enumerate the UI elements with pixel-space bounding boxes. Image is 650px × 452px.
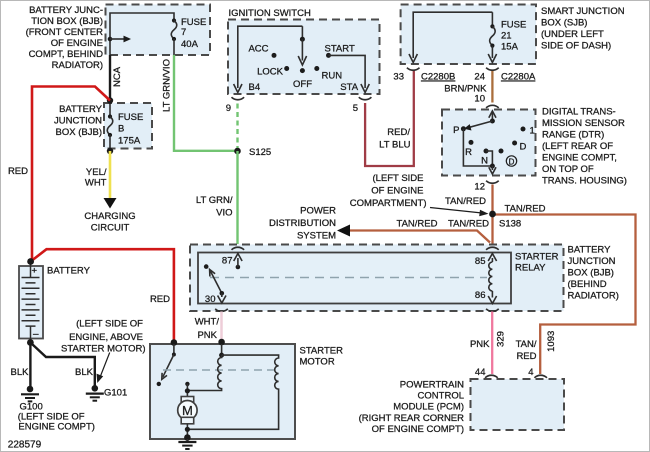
- wire START to STA pin: [329, 55, 370, 92]
- connector pin 24 C2280A: [474, 68, 536, 83]
- svg-text:BOX (BJB): BOX (BJB): [568, 268, 614, 279]
- svg-text:C2280B: C2280B: [421, 72, 455, 83]
- label power distribution system: [269, 206, 336, 242]
- svg-text:BOX (SJB): BOX (SJB): [541, 18, 587, 29]
- node S125: [234, 147, 271, 158]
- svg-text:B4: B4: [249, 82, 261, 93]
- svg-text:B: B: [118, 124, 124, 135]
- svg-text:(RIGHT REAR CORNER: (RIGHT REAR CORNER: [359, 413, 465, 424]
- svg-text:4: 4: [528, 367, 533, 378]
- node junction dot top of fuse B: [107, 97, 113, 103]
- svg-text:START: START: [325, 44, 355, 55]
- svg-text:21: 21: [501, 31, 512, 42]
- svg-text:STARTER: STARTER: [300, 346, 344, 357]
- svg-text:COMPARTMENT): COMPARTMENT): [350, 198, 427, 209]
- connector pin 5: [353, 97, 372, 114]
- svg-text:IGNITION SWITCH: IGNITION SWITCH: [229, 8, 311, 19]
- connector relay pin 86: [486, 309, 499, 312]
- DTR common pin arrow up: [489, 111, 496, 124]
- svg-text:D: D: [520, 142, 527, 153]
- wire LT GRN/VIO from fuse 7 to S125: [174, 55, 235, 151]
- svg-text:RUN: RUN: [322, 71, 343, 82]
- svg-text:G101: G101: [104, 388, 127, 399]
- svg-text:LT BLU: LT BLU: [379, 140, 410, 151]
- svg-text:STARTER: STARTER: [515, 252, 559, 263]
- svg-text:VIO: VIO: [216, 208, 232, 219]
- connector pin 9: [226, 97, 244, 114]
- wire RED from BJB to battery: [32, 87, 110, 262]
- svg-text:85: 85: [475, 256, 486, 267]
- svg-text:COMPT, BEHIND: COMPT, BEHIND: [29, 49, 104, 60]
- solenoid windings: [187, 344, 278, 429]
- svg-text:M: M: [182, 403, 193, 418]
- wire BLK battery to G101: [30, 343, 94, 389]
- solenoid fixed contact right: [185, 382, 189, 386]
- connector PCM pin 4: [528, 367, 547, 378]
- svg-text:OF ENGINE: OF ENGINE: [51, 38, 103, 49]
- svg-text:(UNDER LEFT: (UNDER LEFT: [541, 29, 604, 40]
- svg-text:86: 86: [475, 290, 486, 301]
- connector relay pin 87: [232, 247, 245, 250]
- starter motor box: [150, 344, 295, 439]
- svg-text:(BEHIND: (BEHIND: [568, 279, 607, 290]
- connector relay pin 85: [486, 247, 499, 250]
- contact ACC: [272, 53, 277, 58]
- svg-text:SYSTEM: SYSTEM: [297, 231, 336, 242]
- powertrain control module PCM dashed box: [471, 379, 565, 430]
- starter relay inner box: [198, 253, 511, 304]
- svg-text:RADIATOR): RADIATOR): [52, 60, 103, 71]
- svg-text:CIRCUIT: CIRCUIT: [91, 223, 130, 234]
- contact D: [512, 141, 517, 146]
- label starter relay: [515, 252, 559, 274]
- svg-text:OF ENGINE COMPT): OF ENGINE COMPT): [372, 424, 464, 435]
- svg-text:5: 5: [353, 103, 358, 114]
- svg-text:TAN/RED: TAN/RED: [397, 219, 438, 230]
- contact P: [461, 126, 466, 131]
- svg-text:RED: RED: [8, 166, 28, 177]
- wire RED battery to starter motor: [31, 249, 174, 341]
- battery: [19, 262, 43, 343]
- svg-text:RADIATOR): RADIATOR): [568, 291, 619, 302]
- svg-text:1093: 1093: [546, 331, 557, 352]
- label left side of engine above starter motor: [61, 319, 145, 355]
- pointer arrow to G101: [97, 353, 110, 384]
- labels G100: [18, 402, 95, 433]
- node junction dot below fuse B: [107, 148, 113, 154]
- svg-text:(LEFT REAR OF: (LEFT REAR OF: [542, 141, 613, 152]
- contact R: [469, 140, 474, 145]
- contact OFF: [300, 68, 305, 73]
- svg-text:STARTER MOTOR): STARTER MOTOR): [61, 344, 145, 355]
- ground starter motor: [178, 439, 196, 449]
- svg-text:MODULE (PCM): MODULE (PCM): [393, 402, 464, 413]
- svg-text:MISSION SENSOR: MISSION SENSOR: [542, 118, 625, 129]
- svg-text:9: 9: [226, 103, 231, 114]
- svg-text:BATTERY JUNC-: BATTERY JUNC-: [29, 5, 103, 16]
- svg-text:P: P: [453, 125, 459, 136]
- label left side of engine compartment: [350, 173, 427, 209]
- svg-text:JUNCTION: JUNCTION: [568, 256, 616, 267]
- connector pin 10 arc: [486, 105, 499, 108]
- DTR label text: [542, 107, 627, 187]
- wire TAN/RED from power distribution arrow: [337, 225, 490, 243]
- svg-text:N: N: [481, 156, 488, 167]
- svg-text:RED: RED: [150, 294, 170, 305]
- svg-text:RED: RED: [516, 351, 536, 362]
- svg-text:YEL/: YEL/: [86, 167, 107, 178]
- svg-text:ENGINE, ABOVE: ENGINE, ABOVE: [69, 332, 143, 343]
- contact START: [326, 53, 331, 58]
- svg-text:+: +: [32, 266, 38, 277]
- ground G101: [86, 385, 104, 401]
- svg-text:CONTROL: CONTROL: [418, 390, 464, 401]
- svg-text:BLK: BLK: [11, 367, 30, 378]
- fuse F21 15A: [488, 12, 526, 62]
- svg-text:FUSE: FUSE: [501, 20, 526, 31]
- svg-text:TAN/RED: TAN/RED: [448, 219, 489, 230]
- DTR position labels: [453, 125, 535, 167]
- BJB behind radiator label: [568, 245, 619, 302]
- wire LT GRN/VIO dashed to S125: [236, 104, 238, 149]
- svg-text:POWER: POWER: [300, 206, 336, 217]
- svg-text:BLK: BLK: [75, 367, 94, 378]
- wire RED/LT BLU from STA to SJB pin 33: [365, 71, 414, 167]
- svg-text:RANGE (DTR): RANGE (DTR): [542, 130, 604, 141]
- svg-text:40A: 40A: [181, 39, 199, 50]
- node battery positive: [27, 258, 34, 265]
- relay pin 30 arrow: [205, 291, 226, 305]
- svg-text:TAN/: TAN/: [516, 339, 537, 350]
- wire N to output: [486, 151, 492, 166]
- svg-text:ENGINE COMPT): ENGINE COMPT): [18, 422, 95, 433]
- svg-text:WHT/: WHT/: [195, 317, 220, 328]
- svg-text:175A: 175A: [118, 136, 141, 147]
- contact 1: [521, 127, 526, 132]
- svg-text:12: 12: [474, 182, 485, 193]
- svg-text:TAN/RED: TAN/RED: [445, 196, 486, 207]
- node S138: [489, 211, 521, 230]
- svg-text:R: R: [465, 147, 472, 158]
- svg-text:24: 24: [474, 72, 485, 83]
- wire TAN/RED DTR pin12 to S138: [491, 185, 493, 215]
- svg-text:(FRONT CENTER: (FRONT CENTER: [26, 27, 104, 38]
- BJB behind radiator outer dashed box: [190, 245, 564, 312]
- BJB fuse B label text: [54, 104, 103, 138]
- relay pin 87 arrow: [222, 254, 242, 270]
- svg-text:STA: STA: [340, 82, 358, 93]
- svg-text:POWERTRAIN: POWERTRAIN: [400, 379, 464, 390]
- svg-text:LOCK: LOCK: [257, 67, 284, 78]
- svg-text:DIGITAL TRANS-: DIGITAL TRANS-: [542, 107, 616, 118]
- DTR selector arm pointing at P: [464, 121, 493, 131]
- contact RUN: [314, 66, 319, 71]
- svg-text:SIDE OF DASH): SIDE OF DASH): [541, 41, 611, 52]
- node wht/pnk wire at starter: [218, 339, 225, 346]
- wire TAN/RED 1093 S138 to PCM pin 4: [493, 215, 636, 375]
- svg-text:BATTERY: BATTERY: [47, 266, 91, 277]
- solenoid fixed contact left: [157, 382, 161, 386]
- wire BLK battery to G100: [29, 343, 31, 390]
- wire TAN/RED S138 down to relay pin 85: [491, 214, 493, 245]
- svg-text:C2280A: C2280A: [501, 72, 536, 83]
- contact LOCK: [284, 66, 289, 71]
- wire ignition feed B4: [234, 26, 303, 92]
- relay switch blade: [204, 264, 222, 293]
- fuse F7 40A: [171, 17, 206, 55]
- wire SJB internal to pin 33: [409, 12, 492, 62]
- svg-text:87: 87: [222, 256, 233, 267]
- svg-text:S125: S125: [249, 147, 271, 158]
- ignition switch dashed box: [228, 20, 380, 95]
- SJB label text: [541, 6, 625, 52]
- digital transmission sensor range DTR dashed box: [442, 110, 536, 176]
- connector relay pin 30: [215, 309, 228, 312]
- BJB label text: [26, 5, 104, 71]
- svg-text:PNK: PNK: [470, 339, 490, 350]
- svg-text:TRANS. HOUSING): TRANS. HOUSING): [542, 176, 627, 187]
- ignition position labels: [248, 44, 358, 94]
- svg-text:–: –: [33, 329, 39, 340]
- svg-text:S138: S138: [499, 219, 521, 230]
- svg-text:JUNCTION: JUNCTION: [54, 116, 102, 127]
- svg-text:FUSE: FUSE: [118, 112, 143, 123]
- svg-text:LT GRN/: LT GRN/: [196, 195, 233, 206]
- pointer arrow to S138: [430, 208, 489, 217]
- DTR output node arrow down: [489, 164, 496, 175]
- svg-text:(LEFT SIDE OF: (LEFT SIDE OF: [76, 319, 143, 330]
- svg-text:TAN/RED: TAN/RED: [505, 204, 546, 215]
- wire motor to ground: [184, 424, 191, 441]
- node battery negative: [27, 339, 34, 346]
- contact N: [484, 149, 489, 154]
- svg-text:OF ENGINE: OF ENGINE: [371, 186, 423, 197]
- svg-text:MOTOR: MOTOR: [300, 357, 335, 368]
- relay coil pins 85 86: [475, 254, 497, 304]
- svg-text:RELAY: RELAY: [515, 263, 546, 274]
- svg-text:CHARGING: CHARGING: [84, 211, 135, 222]
- connector pin 12: [474, 181, 498, 193]
- wire YEL/WHT: [109, 151, 112, 199]
- svg-text:33: 33: [393, 72, 404, 83]
- battery junction box BJB (fuse B) dashed box: [104, 103, 152, 149]
- ground G100: [21, 386, 39, 402]
- connector pin 33 C2280B: [393, 68, 455, 83]
- wire BRN/PNK SJB to DTR: [491, 71, 493, 103]
- connector PCM pin 44: [475, 367, 498, 378]
- svg-text:TION BOX (BJB): TION BOX (BJB): [31, 16, 103, 27]
- mechanical link dashed line: [163, 369, 277, 371]
- svg-text:OFF: OFF: [293, 79, 312, 90]
- svg-text:ACC: ACC: [248, 44, 268, 55]
- motor M: [178, 397, 197, 424]
- svg-text:(LEFT SIDE: (LEFT SIDE: [372, 173, 423, 184]
- relay armature dashed link line: [210, 277, 487, 279]
- wire NCA black: [109, 55, 111, 101]
- svg-text:DISTRIBUTION: DISTRIBUTION: [269, 218, 336, 229]
- label starter motor: [300, 346, 344, 368]
- battery junction box BJB (fuse 7) dashed box: [106, 5, 211, 56]
- wire P to output: [463, 129, 492, 166]
- fuse B 175A: [107, 101, 143, 152]
- wire LT GRN/VIO S125 to relay pin 87: [236, 151, 238, 244]
- svg-text:WHT: WHT: [85, 178, 107, 189]
- smart junction box SJB dashed box: [401, 5, 536, 65]
- circled D overdrive: [506, 156, 516, 167]
- svg-text:NCA: NCA: [112, 66, 123, 87]
- wire WHT/PNK relay pin30 to starter motor: [220, 312, 223, 342]
- svg-text:RED/: RED/: [387, 127, 410, 138]
- svg-text:ENGINE COMPT,: ENGINE COMPT,: [542, 153, 617, 164]
- contact D drive: [499, 149, 504, 154]
- svg-text:LT GRN/VIO: LT GRN/VIO: [162, 59, 173, 112]
- svg-text:ON TOP OF: ON TOP OF: [542, 164, 594, 175]
- svg-text:15A: 15A: [501, 42, 519, 53]
- node with arrow to other circuits: [108, 36, 131, 43]
- ignition rotor arm: [298, 26, 306, 65]
- svg-text:D: D: [509, 157, 515, 166]
- svg-text:BOX (BJB): BOX (BJB): [56, 127, 102, 138]
- svg-text:1: 1: [530, 126, 535, 137]
- PCM label text: [359, 379, 465, 435]
- svg-text:BATTERY: BATTERY: [59, 104, 103, 115]
- svg-text:329: 329: [496, 331, 507, 347]
- starter solenoid switch blade: [162, 344, 176, 379]
- svg-text:10: 10: [474, 94, 485, 105]
- svg-text:BATTERY: BATTERY: [568, 245, 612, 256]
- wire inside BJB top: [110, 13, 174, 55]
- svg-text:7: 7: [181, 27, 186, 38]
- svg-text:PNK: PNK: [197, 330, 217, 341]
- wire contact to motor: [185, 384, 190, 397]
- svg-text:SMART JUNCTION: SMART JUNCTION: [541, 6, 625, 17]
- node red wire at starter: [171, 339, 178, 346]
- arrow to charging circuit: [104, 198, 117, 209]
- svg-text:228579: 228579: [8, 440, 42, 451]
- svg-text:30: 30: [205, 294, 216, 305]
- svg-text:44: 44: [475, 367, 486, 378]
- wire PNK relay pin86 to PCM pin 44: [491, 312, 493, 375]
